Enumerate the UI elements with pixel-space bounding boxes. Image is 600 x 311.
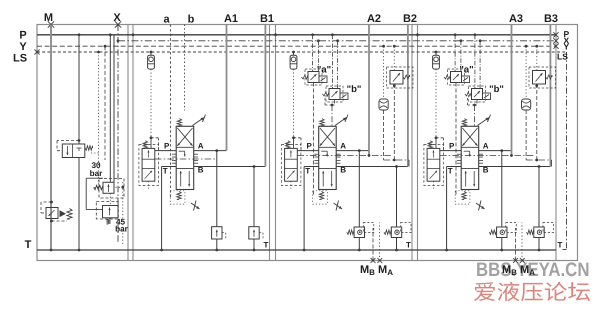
- svg-text:"b": "b": [347, 84, 362, 95]
- svg-text:B3: B3: [544, 13, 558, 25]
- svg-text:a: a: [163, 14, 170, 26]
- svg-text:B2: B2: [403, 13, 417, 25]
- svg-text:P: P: [164, 142, 170, 151]
- svg-text:爱液压论坛: 爱液压论坛: [473, 282, 591, 305]
- svg-text:T: T: [264, 240, 269, 249]
- svg-text:T: T: [305, 167, 310, 176]
- svg-text:A1: A1: [224, 13, 238, 25]
- svg-text:A2: A2: [367, 13, 381, 25]
- svg-text:"a": "a": [459, 65, 473, 76]
- svg-text:A3: A3: [509, 13, 523, 25]
- svg-text:LS: LS: [557, 52, 568, 62]
- svg-text:T: T: [25, 239, 32, 251]
- svg-text:T: T: [558, 241, 563, 250]
- svg-text:T: T: [448, 167, 453, 176]
- svg-text:T: T: [406, 240, 411, 249]
- svg-text:bar: bar: [90, 169, 104, 178]
- svg-text:A: A: [483, 142, 489, 151]
- svg-text:Y: Y: [564, 41, 570, 51]
- svg-text:A: A: [340, 142, 346, 151]
- svg-text:B: B: [340, 166, 346, 175]
- svg-text:B: B: [198, 166, 204, 175]
- svg-text:"b": "b": [489, 84, 504, 95]
- svg-text:P: P: [19, 30, 26, 42]
- svg-text:"a": "a": [317, 65, 331, 76]
- svg-text:T: T: [163, 167, 168, 176]
- svg-text:bar: bar: [115, 225, 129, 234]
- svg-text:B1: B1: [260, 13, 274, 25]
- svg-text:B: B: [483, 166, 489, 175]
- svg-text:b: b: [188, 14, 195, 26]
- svg-text:P: P: [307, 142, 313, 151]
- svg-text:Y: Y: [19, 41, 27, 53]
- svg-text:A: A: [198, 142, 204, 151]
- svg-text:LS: LS: [13, 53, 27, 65]
- svg-text:P: P: [449, 142, 455, 151]
